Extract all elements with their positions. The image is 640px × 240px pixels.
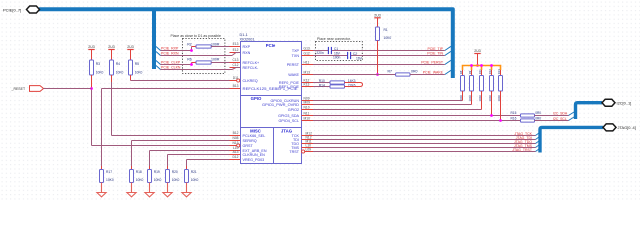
svg-text:PCIE_TIN: PCIE_TIN xyxy=(427,51,443,55)
svg-text:2U3: 2U3 xyxy=(374,14,381,18)
capacitor C2 xyxy=(347,52,349,59)
wire WAKE row xyxy=(313,74,396,76)
wire GPIO1_PWR_OVRD xyxy=(313,104,472,106)
GPIO pin stubs xyxy=(302,100,314,102)
svg-text:PCIE[0..7]: PCIE[0..7] xyxy=(3,7,21,12)
svg-text:R4: R4 xyxy=(116,62,120,66)
wire PERST row xyxy=(313,64,445,66)
right PCIe pin stubs xyxy=(302,50,314,52)
resistor R15 0R0 xyxy=(521,114,535,117)
wire JTAG_TRST xyxy=(313,151,536,153)
svg-text:PCIE_CLKP: PCIE_CLKP xyxy=(161,60,181,64)
resistor R18 10K0 xyxy=(131,166,133,170)
bus entries JTAG xyxy=(536,132,542,136)
wire R3 to _RESET net xyxy=(91,75,93,89)
svg-text:R14: R14 xyxy=(319,83,325,87)
wire GPIO2 xyxy=(313,109,482,111)
ground R19 xyxy=(149,183,151,193)
bus entries PCIE rx/clk xyxy=(156,47,161,51)
svg-text:L09: L09 xyxy=(306,147,312,151)
svg-text:PCIE_RXN: PCIE_RXN xyxy=(161,51,179,55)
svg-text:R21: R21 xyxy=(191,170,197,174)
wire GPIO4_SCL xyxy=(313,120,521,122)
resistor R6 100R xyxy=(192,62,197,64)
svg-text:16V: 16V xyxy=(356,57,363,61)
svg-text:10K0: 10K0 xyxy=(136,178,144,182)
svg-text:R17: R17 xyxy=(106,170,112,174)
svg-text:R6: R6 xyxy=(187,57,192,61)
svg-text:10K0: 10K0 xyxy=(96,71,104,75)
svg-text:R7: R7 xyxy=(388,69,393,73)
dashed box place close to D1 xyxy=(183,39,225,74)
svg-text:R19: R19 xyxy=(154,170,160,174)
svg-text:2U3: 2U3 xyxy=(108,45,115,49)
resistor R7 0R0 xyxy=(396,73,410,76)
svg-text:N13: N13 xyxy=(232,141,238,145)
svg-text:R18: R18 xyxy=(136,170,142,174)
node junction _RESET/R3 xyxy=(90,87,93,90)
wire TXP row xyxy=(313,50,328,52)
section dividers xyxy=(241,95,302,97)
port I2C[0..1] xyxy=(602,99,615,106)
svg-text:PCIE_CLKN: PCIE_CLKN xyxy=(161,65,181,69)
wire TXN row xyxy=(313,55,347,57)
svg-text:R2: R2 xyxy=(187,43,192,47)
resistor R14 22K6 xyxy=(313,86,330,88)
node I2C bus xyxy=(576,103,603,119)
svg-text:D11: D11 xyxy=(233,76,239,80)
wire R4 to PCLK66_SEL xyxy=(111,75,113,82)
svg-text:RXN: RXN xyxy=(243,51,251,55)
ground R17 xyxy=(101,183,103,193)
svg-text:H11: H11 xyxy=(304,60,310,64)
svg-text:CLKREQ: CLKREQ xyxy=(243,79,258,83)
svg-text:R9: R9 xyxy=(468,70,472,74)
svg-text:G13: G13 xyxy=(304,46,310,50)
svg-text:N10: N10 xyxy=(304,105,310,109)
resistor R5 10K0 xyxy=(129,60,133,75)
svg-text:PCIE_TIP: PCIE_TIP xyxy=(427,47,443,51)
svg-text:G12: G12 xyxy=(304,51,310,55)
svg-text:PCIE_WAKE: PCIE_WAKE xyxy=(423,70,444,74)
wire PCIE_CLKP xyxy=(161,64,192,66)
wire JTAG_TMS xyxy=(313,147,536,149)
svg-text:10K0: 10K0 xyxy=(172,178,180,182)
wire B13 REFCLK125 net xyxy=(102,88,230,90)
svg-text:10K0: 10K0 xyxy=(106,178,114,182)
resistor R10 14K3 xyxy=(313,82,330,84)
svg-text:M09: M09 xyxy=(304,100,311,104)
resistor R12 10K0 xyxy=(491,70,493,76)
svg-text:10K0: 10K0 xyxy=(384,36,392,40)
svg-text:N11: N11 xyxy=(304,111,310,115)
JTAG pin stubs xyxy=(302,135,314,137)
svg-text:10K0: 10K0 xyxy=(116,71,124,75)
svg-text:I2C_SCL: I2C_SCL xyxy=(553,117,567,121)
svg-text:XIO2001: XIO2001 xyxy=(240,37,255,41)
ground R21 xyxy=(186,183,188,193)
svg-text:R8: R8 xyxy=(459,70,463,74)
wire PCIE_RXP xyxy=(161,50,192,52)
svg-text:WAKE: WAKE xyxy=(288,73,299,77)
svg-text:2U3: 2U3 xyxy=(127,45,134,49)
svg-text:RXP: RXP xyxy=(243,45,251,49)
wire PCIE_CLKN xyxy=(161,69,233,71)
dashed box place near connector xyxy=(316,42,363,61)
MISC pin stubs xyxy=(230,135,241,137)
svg-text:GPIO4_SCL: GPIO4_SCL xyxy=(279,119,300,123)
wire JTAG_TDO xyxy=(313,143,536,145)
wire PCIE_RXN xyxy=(161,55,233,57)
resistor R4 10K0 xyxy=(110,60,114,75)
svg-text:_RESET: _RESET xyxy=(11,87,26,91)
svg-text:VREG_PD03: VREG_PD03 xyxy=(243,158,265,162)
svg-text:C1: C1 xyxy=(334,47,338,51)
left PCIe pin stubs xyxy=(230,46,241,48)
svg-text:REFCLK+: REFCLK+ xyxy=(243,61,260,65)
svg-text:2U3: 2U3 xyxy=(474,49,481,53)
svg-text:0R0: 0R0 xyxy=(535,111,541,115)
capacitor C1 xyxy=(327,47,329,54)
svg-text:R13: R13 xyxy=(497,69,501,75)
svg-text:PCIE_RXP: PCIE_RXP xyxy=(161,46,179,50)
resistor R20 10K0 xyxy=(167,166,169,170)
svg-text:220n: 220n xyxy=(316,51,324,55)
wire JTAG_TDI xyxy=(313,139,536,141)
svg-text:JTAG_TRST: JTAG_TRST xyxy=(512,148,533,152)
svg-text:PCLK66_SEL: PCLK66_SEL xyxy=(243,134,266,138)
svg-text:M13: M13 xyxy=(304,70,311,74)
ground R20 xyxy=(167,183,169,193)
wire JTAG_TCK xyxy=(313,135,536,137)
svg-text:2U3: 2U3 xyxy=(88,45,95,49)
wire GPIO3_SDA xyxy=(313,115,521,117)
svg-text:N08: N08 xyxy=(232,136,238,140)
svg-text:R3: R3 xyxy=(96,62,100,66)
svg-text:I2C[0..1]: I2C[0..1] xyxy=(617,100,632,105)
svg-text:K13: K13 xyxy=(304,82,310,86)
bus entries I2C xyxy=(569,112,575,116)
svg-text:GPIO: GPIO xyxy=(251,96,262,101)
resistor R17 10K0 xyxy=(101,166,103,170)
svg-text:REFCLK-: REFCLK- xyxy=(243,66,260,70)
svg-text:M10: M10 xyxy=(304,116,311,120)
node junction RXP xyxy=(190,49,193,52)
svg-text:B13: B13 xyxy=(233,84,239,88)
svg-text:GRST: GRST xyxy=(243,144,254,148)
svg-text:E12: E12 xyxy=(233,48,239,52)
ground R18 xyxy=(131,183,133,193)
svg-text:PERST: PERST xyxy=(287,63,300,67)
wire _RESET xyxy=(44,88,92,90)
wire R5 to CLKREQ xyxy=(130,75,132,81)
wire SERIRQ to R18 xyxy=(132,140,230,142)
svg-text:R16: R16 xyxy=(511,117,517,121)
svg-text:R20: R20 xyxy=(172,170,178,174)
svg-text:GPIO2: GPIO2 xyxy=(288,108,299,112)
svg-text:10K0: 10K0 xyxy=(135,71,143,75)
svg-text:JTAG: JTAG xyxy=(281,128,293,133)
op chip D1-1 XIO2001 outer box xyxy=(241,42,302,164)
wire R1 down to WAKE xyxy=(377,41,379,75)
resistor R1 10K0 xyxy=(376,27,380,41)
svg-text:10K0: 10K0 xyxy=(154,178,162,182)
bus PCIE[0..7] xyxy=(39,9,453,78)
svg-text:R11: R11 xyxy=(478,69,482,74)
svg-text:C2: C2 xyxy=(353,52,357,56)
svg-text:GPIO3_SDA: GPIO3_SDA xyxy=(278,114,299,118)
svg-text:R1: R1 xyxy=(384,28,388,32)
wire EXT_ARB_EN to R19 xyxy=(150,150,230,152)
port JTAG[0..4] xyxy=(603,124,616,131)
svg-text:TXN: TXN xyxy=(292,54,300,58)
wire GPIO0_CLKRUN xyxy=(313,100,463,102)
svg-text:TRST: TRST xyxy=(289,150,299,154)
orange power rail xyxy=(463,66,501,71)
svg-text:I2C_SDA: I2C_SDA xyxy=(553,112,568,116)
resistor R2 100R xyxy=(192,46,197,48)
svg-text:100R: 100R xyxy=(211,43,220,47)
svg-text:C13: C13 xyxy=(232,58,238,62)
svg-text:100R: 100R xyxy=(211,57,220,61)
svg-text:SERIRQ: SERIRQ xyxy=(243,139,257,143)
svg-text:E13: E13 xyxy=(233,42,239,46)
svg-text:Place near connector.: Place near connector. xyxy=(317,37,351,41)
svg-text:TXP: TXP xyxy=(292,49,300,53)
svg-text:GPIO1_PWR_OVRD: GPIO1_PWR_OVRD xyxy=(262,103,299,107)
node junction R1/WAKE xyxy=(376,73,379,76)
svg-text:CLKRUN_EN: CLKRUN_EN xyxy=(243,153,266,157)
svg-text:PCIE_PERST: PCIE_PERST xyxy=(421,61,444,65)
svg-text:Place as close to D1 as possib: Place as close to D1 as possible xyxy=(171,34,221,38)
resistor R19 10K0 xyxy=(149,166,151,170)
bus branch left vertical xyxy=(152,9,156,69)
svg-text:REF1_PCIE: REF1_PCIE xyxy=(279,85,300,89)
svg-text:0R0: 0R0 xyxy=(411,69,417,73)
svg-text:R12: R12 xyxy=(488,69,492,75)
svg-text:JTAG[0..4]: JTAG[0..4] xyxy=(618,125,636,130)
svg-text:A13: A13 xyxy=(233,150,239,154)
svg-text:R5: R5 xyxy=(135,62,139,66)
svg-text:C12: C12 xyxy=(232,63,238,67)
wire R10/R14 join loop xyxy=(345,83,363,87)
svg-text:10K0: 10K0 xyxy=(191,178,199,182)
wire VREG_PD03 to R21 xyxy=(187,159,230,161)
resistor R11 10K0 xyxy=(481,70,483,76)
svg-text:D12: D12 xyxy=(232,155,238,159)
svg-text:R15: R15 xyxy=(511,111,517,115)
svg-text:MISC: MISC xyxy=(250,128,261,133)
svg-text:PCIe: PCIe xyxy=(266,43,276,48)
svg-text:B12: B12 xyxy=(233,131,239,135)
resistor R13 10K0 xyxy=(500,70,502,76)
resistor R16 0R0 xyxy=(521,119,535,122)
resistor R3 10K0 xyxy=(90,60,94,75)
resistor R8 10K0 xyxy=(462,70,464,76)
node JTAG bus xyxy=(540,127,603,152)
resistor R9 10K0 xyxy=(471,70,473,76)
resistor R21 10K0 xyxy=(186,166,188,170)
bus entries PCIE tx/perst/wake xyxy=(445,46,451,50)
wire CLKRUN_EN to R20 xyxy=(168,154,230,156)
